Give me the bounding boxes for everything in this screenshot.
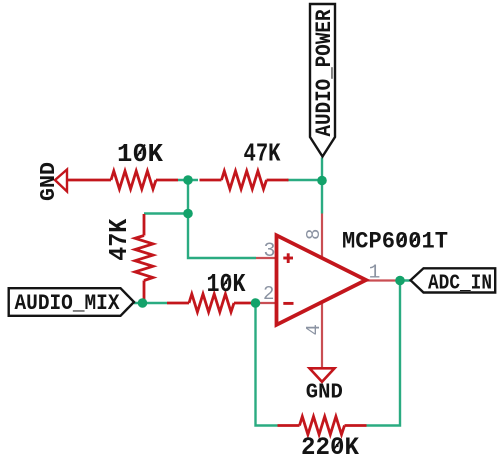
svg-text:2: 2 xyxy=(263,283,274,305)
svg-text:3: 3 xyxy=(263,240,275,263)
svg-text:47K: 47K xyxy=(104,218,134,260)
svg-text:1: 1 xyxy=(369,262,381,284)
svg-text:8: 8 xyxy=(303,229,325,240)
svg-text:GND: GND xyxy=(306,381,343,405)
svg-text:47K: 47K xyxy=(244,139,281,169)
svg-text:220K: 220K xyxy=(301,433,359,456)
svg-text:10K: 10K xyxy=(117,139,163,169)
svg-text:GND: GND xyxy=(37,162,61,201)
svg-text:10K: 10K xyxy=(207,269,246,299)
svg-text:4: 4 xyxy=(303,324,325,335)
svg-text:ADC_IN: ADC_IN xyxy=(428,273,492,296)
svg-text:MCP6001T: MCP6001T xyxy=(342,228,448,254)
svg-text:AUDIO_MIX: AUDIO_MIX xyxy=(15,291,121,316)
svg-text:AUDIO_POWER: AUDIO_POWER xyxy=(312,9,337,137)
